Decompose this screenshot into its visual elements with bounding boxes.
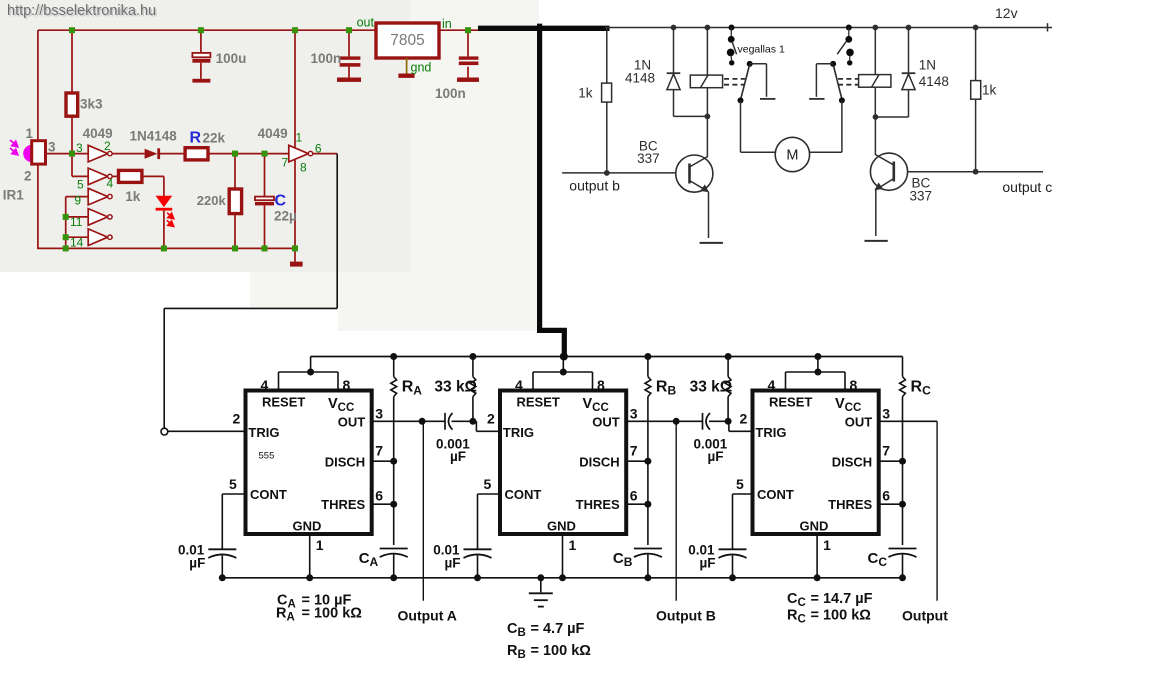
wire: 22k to gate2 bbox=[208, 153, 289, 155]
svg-text:100n: 100n bbox=[311, 51, 342, 66]
svg-text:7: 7 bbox=[630, 443, 638, 459]
inverter gate6 (pin 14) bbox=[88, 229, 108, 246]
svg-text:1: 1 bbox=[296, 131, 303, 145]
capacitor CB bbox=[634, 548, 662, 550]
svg-text:µF: µF bbox=[708, 449, 724, 464]
transistor BC337 (left) bbox=[676, 155, 713, 192]
svg-text:out: out bbox=[357, 16, 375, 30]
resistor 220k bbox=[234, 154, 236, 189]
svg-text:3: 3 bbox=[882, 406, 890, 422]
UA pin4/pin8 top wires bbox=[279, 371, 339, 373]
svg-text:8: 8 bbox=[300, 161, 307, 175]
UC CONT pin wire + 0.01uF cap bbox=[733, 493, 753, 495]
svg-text:GND: GND bbox=[547, 519, 576, 534]
UB pin4/pin8 top wires bbox=[533, 371, 593, 373]
wire: 3k3 branch vertical bbox=[71, 30, 73, 153]
svg-text:RESET: RESET bbox=[262, 395, 305, 410]
regulator 7805 bbox=[376, 23, 439, 58]
node: rail dots bbox=[671, 25, 677, 31]
svg-text:4: 4 bbox=[107, 177, 114, 191]
relay coil (right) bbox=[874, 28, 876, 75]
inverter gate4 (pin 9) bbox=[88, 188, 108, 205]
svg-text:1: 1 bbox=[569, 537, 577, 553]
wire: output c bbox=[908, 171, 1043, 173]
7805 gnd pin bbox=[406, 58, 408, 74]
UB THRES pin wire bbox=[626, 503, 648, 505]
svg-text:8: 8 bbox=[343, 377, 351, 393]
diode 1N4148 (left) bbox=[673, 28, 675, 74]
svg-text:http://bsselektronika.hu: http://bsselektronika.hu bbox=[7, 3, 156, 19]
wire: in-side 100n branch bbox=[467, 30, 469, 56]
resistor 33k pull-up (A) bbox=[472, 357, 474, 377]
wire: contact to motor (left) bbox=[740, 100, 742, 152]
svg-text:2: 2 bbox=[233, 411, 241, 427]
wire: contact to motor (right) bbox=[841, 100, 843, 152]
svg-text:7805: 7805 bbox=[390, 32, 424, 49]
svg-text:3: 3 bbox=[48, 140, 56, 155]
UB GND pin wire bbox=[562, 534, 564, 578]
svg-text:6: 6 bbox=[630, 488, 638, 504]
timer 555 UB box bbox=[500, 391, 626, 535]
svg-text:CONT: CONT bbox=[250, 487, 287, 502]
svg-text:CB: CB bbox=[507, 621, 526, 639]
svg-text:1N: 1N bbox=[919, 58, 936, 73]
svg-text:1: 1 bbox=[26, 126, 34, 141]
svg-text:M: M bbox=[786, 148, 798, 164]
svg-text:Output: Output bbox=[902, 608, 948, 624]
svg-text:9: 9 bbox=[74, 194, 81, 208]
svg-text:CA: CA bbox=[359, 550, 379, 569]
ground symbol bbox=[540, 578, 542, 593]
svg-text:OUT: OUT bbox=[845, 415, 873, 430]
motor M bbox=[775, 137, 809, 171]
svg-text:= 4.7 µF: = 4.7 µF bbox=[531, 621, 585, 637]
svg-text:µF: µF bbox=[189, 556, 205, 571]
wire: out-side 100n branch bbox=[348, 30, 350, 56]
wire: IR1 output bbox=[46, 153, 89, 155]
svg-text:8: 8 bbox=[597, 377, 605, 393]
svg-text:555: 555 bbox=[259, 451, 275, 462]
ground bar under 100u bbox=[192, 79, 210, 83]
svg-text:C: C bbox=[275, 192, 287, 209]
wire: 100u branch bbox=[200, 30, 202, 53]
wire: 4049 pin1 VDD branch bbox=[294, 30, 296, 148]
plus terminal bbox=[1043, 27, 1052, 29]
UB TRIG pin wire bbox=[473, 420, 477, 422]
svg-text:Output B: Output B bbox=[656, 608, 716, 624]
svg-text:5: 5 bbox=[484, 476, 492, 492]
resistor 1k (left) bbox=[606, 28, 608, 84]
svg-text:1k: 1k bbox=[982, 83, 997, 98]
limit switch vegallas 1 bbox=[729, 25, 735, 31]
svg-text:THRES: THRES bbox=[321, 497, 365, 512]
svg-text:µF: µF bbox=[445, 556, 461, 571]
svg-text:= 100 kΩ: = 100 kΩ bbox=[531, 643, 592, 659]
capacitor 0.001uF coupling (A) bbox=[444, 413, 446, 430]
svg-text:RC: RC bbox=[787, 608, 806, 626]
wire: 4049 pin8 VSS down to ground bbox=[294, 159, 296, 248]
capacitor 100n (left of 7805) bbox=[340, 56, 361, 59]
wire: +5V top rail bbox=[38, 29, 479, 31]
capacitor 0.001uF coupling (B) bbox=[702, 413, 704, 430]
svg-text:µF: µF bbox=[450, 449, 466, 464]
wire: Output C line bbox=[936, 421, 938, 601]
wire: 12v rail bbox=[605, 27, 1043, 29]
node: junction squares bbox=[69, 27, 75, 33]
svg-text:VCC: VCC bbox=[583, 396, 609, 414]
wire: gate1 out to diode bbox=[112, 153, 144, 155]
svg-text:337: 337 bbox=[910, 189, 933, 204]
resistor 1k (right) bbox=[975, 28, 977, 81]
svg-text:7: 7 bbox=[375, 443, 383, 459]
limit switch (right) bbox=[846, 25, 852, 31]
UB VCC feed bbox=[562, 357, 564, 373]
svg-text:THRES: THRES bbox=[828, 497, 872, 512]
svg-text:3: 3 bbox=[630, 406, 638, 422]
svg-text:OUT: OUT bbox=[592, 415, 620, 430]
UC THRES pin wire bbox=[879, 503, 903, 505]
inverter gate1 (pins 3-2) bbox=[88, 145, 108, 162]
svg-text:DISCH: DISCH bbox=[579, 455, 619, 470]
wire: Output A line bbox=[422, 421, 424, 601]
svg-text:µF: µF bbox=[700, 556, 716, 571]
ground bar below rail bbox=[294, 248, 296, 261]
svg-text:3: 3 bbox=[76, 141, 83, 155]
svg-text:4148: 4148 bbox=[919, 74, 949, 89]
svg-text:1N4148: 1N4148 bbox=[130, 129, 178, 144]
svg-text:Output A: Output A bbox=[398, 608, 457, 624]
svg-text:7: 7 bbox=[282, 156, 289, 170]
wire: gate2 output down to timer TRIG (black) bbox=[336, 154, 338, 309]
wire: thick 12V feed bus bbox=[478, 26, 610, 31]
svg-text:4049: 4049 bbox=[258, 126, 288, 141]
resistor 1k bbox=[119, 170, 142, 182]
UC TRIG pin wire bbox=[725, 420, 729, 422]
svg-text:TRIG: TRIG bbox=[755, 425, 786, 440]
UA VCC feed bbox=[310, 357, 312, 373]
svg-text:R: R bbox=[190, 130, 202, 147]
scan background tint bbox=[0, 0, 410, 272]
svg-text:VCC: VCC bbox=[328, 396, 354, 414]
transistor BC337 (right) bbox=[870, 153, 907, 190]
resistor 33k pull-up (B) bbox=[727, 357, 729, 377]
UA TRIG pin wire bbox=[168, 430, 246, 432]
svg-text:5: 5 bbox=[736, 476, 744, 492]
svg-text:6: 6 bbox=[375, 488, 383, 504]
UC GND pin wire bbox=[816, 534, 818, 578]
relay coil (left) bbox=[706, 28, 708, 76]
UA GND pin wire bbox=[309, 534, 311, 578]
inverter gate5 (pin 11) bbox=[88, 209, 108, 226]
svg-text:1k: 1k bbox=[578, 86, 593, 101]
wire: LED to ground rail bbox=[163, 211, 165, 249]
svg-text:1: 1 bbox=[823, 537, 831, 553]
svg-text:11: 11 bbox=[70, 215, 83, 229]
svg-text:4: 4 bbox=[768, 377, 776, 393]
svg-text:1: 1 bbox=[316, 537, 324, 553]
UC VCC feed bbox=[817, 357, 819, 373]
svg-text:RESET: RESET bbox=[769, 395, 812, 410]
wire: branch to gate3 input bbox=[71, 154, 73, 177]
svg-text:33 kΩ: 33 kΩ bbox=[690, 379, 733, 396]
timer 555 UA box bbox=[246, 391, 372, 535]
svg-text:THRES: THRES bbox=[576, 497, 620, 512]
UC DISCH pin wire bbox=[879, 460, 903, 462]
svg-text:vegallas 1: vegallas 1 bbox=[738, 44, 785, 56]
wire: Output B line bbox=[675, 421, 677, 601]
node: thick bus to rail dot bbox=[560, 353, 568, 361]
svg-text:GND: GND bbox=[293, 519, 322, 534]
svg-text:output b: output b bbox=[569, 178, 620, 194]
svg-text:33 kΩ: 33 kΩ bbox=[434, 379, 477, 396]
UA THRES pin wire bbox=[372, 503, 394, 505]
svg-text:12v: 12v bbox=[995, 5, 1018, 21]
svg-text:RESET: RESET bbox=[517, 395, 560, 410]
wire: gate2 output bbox=[313, 153, 337, 155]
svg-text:2: 2 bbox=[24, 169, 32, 184]
resistor RC (timing) bbox=[902, 357, 904, 377]
capacitor 100u (electrolytic) bbox=[192, 53, 210, 57]
UB DISCH pin wire bbox=[626, 460, 648, 462]
mechanical link dashes (right) bbox=[838, 78, 859, 80]
svg-text:8: 8 bbox=[850, 377, 858, 393]
capacitor CC bbox=[889, 548, 917, 550]
svg-text:22µ: 22µ bbox=[274, 209, 297, 224]
svg-text:RB: RB bbox=[656, 379, 677, 398]
wire: 1k to LED bbox=[142, 175, 164, 177]
wire: bottom ground rail of IR section bbox=[37, 247, 296, 249]
capacitor CA bbox=[380, 548, 408, 550]
svg-text:14: 14 bbox=[70, 236, 84, 250]
node: TRIG input terminal bbox=[161, 428, 168, 435]
diode 1N4148 (right) bbox=[908, 28, 910, 74]
svg-text:7: 7 bbox=[882, 443, 890, 459]
diode 1N4148 bbox=[145, 149, 158, 159]
svg-text:6: 6 bbox=[882, 488, 890, 504]
svg-text:4: 4 bbox=[515, 377, 523, 393]
wire: output b bbox=[562, 172, 676, 174]
wire: diode to 22k bbox=[160, 153, 185, 155]
svg-text:= 100 kΩ: = 100 kΩ bbox=[302, 606, 363, 622]
svg-text:3: 3 bbox=[375, 406, 383, 422]
timer 555 UC box bbox=[753, 391, 879, 535]
svg-text:5: 5 bbox=[77, 178, 84, 192]
node: output B junction bbox=[673, 418, 680, 425]
LED (red) bbox=[156, 196, 173, 207]
svg-text:IR1: IR1 bbox=[3, 188, 25, 203]
IR arrows bbox=[10, 140, 18, 155]
UC OUT pin wire bbox=[879, 420, 937, 422]
svg-text:3k3: 3k3 bbox=[80, 97, 103, 112]
svg-text:22k: 22k bbox=[203, 130, 226, 145]
node: output A junction bbox=[419, 418, 426, 425]
svg-text:2: 2 bbox=[487, 411, 495, 427]
svg-text:100u: 100u bbox=[216, 51, 247, 66]
svg-text:VCC: VCC bbox=[835, 396, 861, 414]
svg-text:CC: CC bbox=[868, 550, 888, 569]
mechanical link dashes (left) bbox=[724, 78, 745, 80]
resistor R 22k bbox=[185, 148, 208, 160]
IR receiver IR1 bbox=[23, 145, 32, 162]
UB OUT pin wire bbox=[626, 420, 702, 422]
svg-text:100n: 100n bbox=[435, 86, 466, 101]
wire: unused-inputs vertical bbox=[65, 197, 67, 249]
svg-text:220k: 220k bbox=[197, 193, 227, 208]
svg-text:5: 5 bbox=[229, 476, 237, 492]
svg-text:4148: 4148 bbox=[625, 71, 655, 86]
svg-text:TRIG: TRIG bbox=[503, 425, 534, 440]
svg-text:CONT: CONT bbox=[505, 487, 542, 502]
capacitor 100n (right of 7805) bbox=[459, 56, 479, 59]
svg-text:4: 4 bbox=[261, 377, 269, 393]
relay contact switch (left) bbox=[747, 61, 753, 67]
svg-text:OUT: OUT bbox=[338, 415, 366, 430]
wire: gate3 out to 1k bbox=[112, 175, 118, 177]
svg-text:gnd: gnd bbox=[411, 61, 432, 75]
UA DISCH pin wire bbox=[372, 460, 394, 462]
svg-text:GND: GND bbox=[800, 519, 829, 534]
svg-text:= 100 kΩ: = 100 kΩ bbox=[811, 608, 872, 624]
svg-text:RA: RA bbox=[402, 379, 423, 398]
svg-text:DISCH: DISCH bbox=[325, 455, 365, 470]
svg-text:TRIG: TRIG bbox=[248, 425, 279, 440]
wire: coil junction to diode (right) bbox=[876, 116, 909, 118]
inverter gate3 (pins 5-4) bbox=[88, 168, 108, 185]
svg-text:RC: RC bbox=[911, 379, 932, 398]
wire: IR1 pin2 down to ground rail bbox=[37, 164, 39, 249]
svg-text:1k: 1k bbox=[125, 189, 141, 204]
resistor 3k3 bbox=[66, 93, 78, 116]
svg-text:DISCH: DISCH bbox=[832, 455, 872, 470]
svg-text:= 14.7 µF: = 14.7 µF bbox=[811, 591, 873, 607]
wire: diode to coil junction bbox=[674, 115, 708, 117]
UA CONT pin wire + 0.01uF cap bbox=[222, 493, 245, 495]
resistor RB (timing) bbox=[647, 357, 649, 377]
svg-text:CONT: CONT bbox=[757, 487, 794, 502]
resistor RA (timing) bbox=[393, 357, 395, 377]
inverter gate2 (pins 7-6) bbox=[289, 145, 309, 162]
svg-text:2: 2 bbox=[104, 139, 111, 153]
wire: timers ground rail bbox=[222, 577, 903, 579]
capacitor C 22u bbox=[264, 154, 266, 197]
svg-text:2: 2 bbox=[740, 411, 748, 427]
wire: left vertical to IR1 pin1 bbox=[37, 30, 39, 141]
svg-text:in: in bbox=[442, 17, 452, 31]
UA OUT pin wire bbox=[372, 420, 445, 422]
svg-text:337: 337 bbox=[637, 151, 660, 166]
wire: timers VCC rail bbox=[311, 356, 903, 358]
relay contact switch (right) bbox=[830, 61, 836, 67]
svg-text:CC: CC bbox=[787, 591, 806, 609]
svg-text:output c: output c bbox=[1002, 179, 1052, 195]
UC pin4/pin8 top wires bbox=[786, 371, 846, 373]
svg-text:RB: RB bbox=[507, 643, 526, 661]
UB CONT pin wire + 0.01uF cap bbox=[478, 493, 501, 495]
svg-text:CB: CB bbox=[613, 550, 633, 569]
